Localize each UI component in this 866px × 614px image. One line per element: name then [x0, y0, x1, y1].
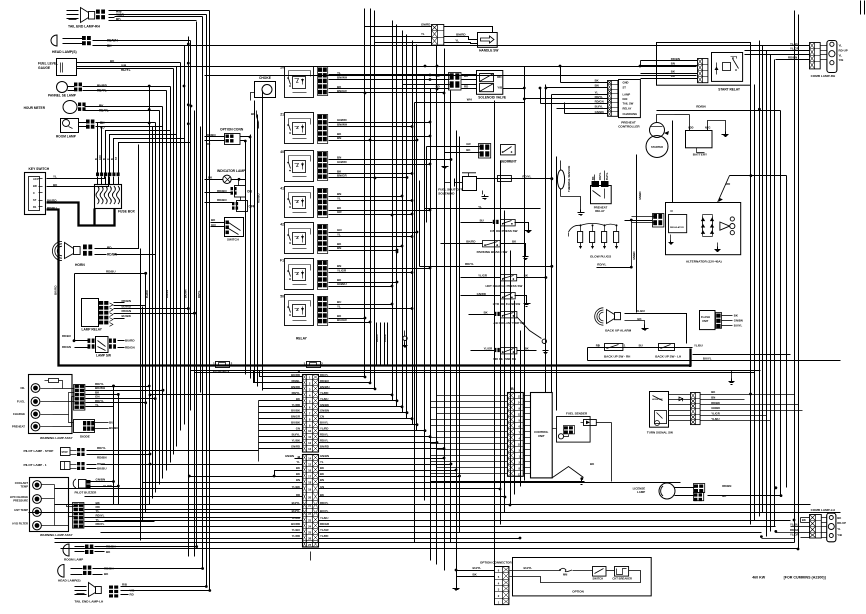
svg-text:Y/B: Y/B [837, 533, 842, 537]
svg-text:YL: YL [337, 233, 341, 237]
svg-text:KEY SWITCH: KEY SWITCH [29, 167, 50, 171]
svg-text:GN/RD: GN/RD [337, 118, 348, 122]
svg-text:GND: GND [623, 81, 629, 85]
svg-text:FU EL: FU EL [17, 400, 25, 404]
svg-text:50: 50 [280, 295, 284, 299]
svg-text:FUSE-BOX: FUSE-BOX [213, 370, 230, 374]
svg-text:MM: MM [563, 573, 567, 577]
svg-text:BK: BK [595, 79, 599, 83]
svg-text:LAMP: LAMP [623, 93, 631, 97]
svg-text:BK/WH: BK/WH [185, 289, 188, 298]
svg-text:11: 11 [308, 435, 311, 439]
svg-text:YL/GR: YL/GR [320, 528, 329, 532]
svg-text:RD/BN: RD/BN [122, 299, 132, 303]
svg-text:HYD CHARGE: HYD CHARGE [10, 495, 28, 499]
svg-text:FLASH: FLASH [701, 315, 710, 319]
svg-text:RELAY: RELAY [623, 107, 632, 111]
svg-text:23: 23 [308, 519, 312, 523]
svg-text:GN/RD: GN/RD [477, 292, 486, 296]
svg-text:RD/BN: RD/BN [217, 198, 227, 202]
svg-text:13: 13 [308, 447, 312, 451]
svg-text:BU/YL: BU/YL [473, 566, 482, 570]
svg-text:BR: BR [33, 184, 37, 188]
svg-text:RD/BN: RD/BN [206, 133, 216, 137]
svg-text:RD/BN: RD/BN [788, 55, 797, 59]
svg-text:15: 15 [518, 395, 521, 399]
svg-text:SOLENOID: SOLENOID [438, 192, 455, 196]
svg-text:BU: BU [337, 300, 341, 304]
svg-text:YL/RD: YL/RD [292, 534, 300, 538]
svg-text:RD/BL: RD/BL [291, 379, 300, 383]
svg-text:GN: GN [211, 223, 216, 227]
svg-text:BN: BN [671, 61, 675, 65]
svg-text:RD/GN: RD/GN [166, 290, 169, 298]
svg-text:BU/RD: BU/RD [146, 290, 149, 298]
svg-text:BU/RD: BU/RD [122, 305, 132, 309]
svg-text:ROOM LAMP: ROOM LAMP [56, 135, 77, 139]
svg-text:RD: RD [726, 182, 730, 186]
svg-text:17: 17 [308, 475, 312, 479]
svg-text:HOT CHARGE PRESS SW: HOT CHARGE PRESS SW [486, 284, 523, 288]
svg-text:RD/BN: RD/BN [696, 105, 706, 109]
svg-text:RD/BN: RD/BN [722, 484, 731, 488]
svg-text:CHARGING: CHARGING [623, 112, 638, 116]
svg-text:GN/BN: GN/BN [632, 252, 636, 260]
svg-text:B: B [111, 158, 114, 160]
svg-text:PILOT LAMP - STOP: PILOT LAMP - STOP [24, 449, 54, 453]
svg-text:YL: YL [96, 509, 100, 513]
svg-text:B: B [95, 158, 98, 160]
svg-text:RD/YL: RD/YL [198, 290, 201, 298]
svg-text:YL: YL [53, 175, 57, 179]
svg-text:RD: RD [671, 74, 675, 78]
svg-text:BK: BK [525, 347, 529, 351]
svg-text:RD/YL: RD/YL [522, 175, 531, 179]
svg-text:RD: RD [116, 18, 121, 22]
svg-text:BU/RD: BU/RD [125, 339, 135, 343]
svg-text:BK: BK [320, 472, 324, 476]
svg-text:RD/YL: RD/YL [292, 391, 301, 395]
svg-text:13: 13 [518, 472, 521, 476]
svg-text:2: 2 [231, 362, 233, 366]
svg-text:FUEL LEVEL: FUEL LEVEL [38, 62, 58, 66]
svg-text:BU/YL: BU/YL [524, 566, 533, 570]
svg-text:20: 20 [280, 66, 284, 70]
svg-text:HORN SW: HORN SW [652, 399, 664, 401]
svg-text:RD/WH: RD/WH [107, 39, 118, 43]
svg-text:42: 42 [280, 223, 284, 227]
svg-text:YL/GR: YL/GR [711, 412, 720, 416]
svg-text:BK: BK [296, 397, 300, 401]
svg-text:RD/YL: RD/YL [320, 433, 329, 437]
svg-text:UNIT: UNIT [702, 319, 709, 323]
svg-text:BK/BU: BK/BU [97, 467, 107, 471]
svg-text:YL: YL [337, 71, 341, 75]
svg-text:RD/BN: RD/BN [671, 57, 680, 61]
svg-text:RD/GN: RD/GN [122, 309, 132, 313]
svg-text:BATTERY: BATTERY [693, 153, 708, 157]
svg-text:HEAD LAMP(S): HEAD LAMP(S) [52, 50, 77, 54]
svg-text:26: 26 [308, 537, 312, 541]
svg-text:YL/GR: YL/GR [478, 274, 488, 278]
svg-text:MID OIL TEMP SW: MID OIL TEMP SW [493, 357, 516, 361]
svg-text:RD/GR: RD/GR [790, 528, 799, 532]
svg-text:BN: BN [337, 264, 341, 268]
svg-text:IGN: IGN [623, 97, 628, 101]
svg-text:HOUR METER: HOUR METER [24, 106, 46, 110]
svg-text:20: 20 [308, 496, 312, 500]
svg-text:F1: F1 [280, 259, 284, 263]
svg-text:YL/GR: YL/GR [790, 46, 800, 50]
svg-text:BN: BN [711, 396, 715, 400]
svg-text:GN/BN: GN/BN [734, 319, 743, 323]
svg-text:OPTION: OPTION [572, 590, 584, 594]
svg-text:HEAD LAMP(S): HEAD LAMP(S) [58, 579, 81, 583]
svg-text:COMB LAMP-LH: COMB LAMP-LH [811, 508, 836, 512]
svg-text:RD: RD [436, 85, 440, 89]
svg-text:BN/WH: BN/WH [337, 123, 347, 127]
svg-text:YL: YL [296, 460, 300, 464]
svg-text:19: 19 [308, 488, 312, 492]
svg-text:24: 24 [308, 525, 312, 529]
svg-text:RD/YL: RD/YL [96, 522, 105, 526]
svg-text:GN/RD: GN/RD [421, 23, 430, 27]
svg-text:YL/GR: YL/GR [484, 347, 493, 351]
svg-text:HYD OIL FLOW SW: HYD OIL FLOW SW [493, 302, 521, 306]
svg-text:REGULATOR: REGULATOR [670, 226, 684, 229]
svg-text:GN: GN [296, 427, 300, 431]
svg-text:RELAY: RELAY [595, 209, 605, 213]
svg-text:Y/B: Y/B [839, 58, 844, 62]
svg-text:YL: YL [320, 460, 324, 464]
svg-text:LAMP: LAMP [637, 490, 645, 494]
svg-text:BK: BK [734, 314, 738, 318]
svg-text:BK: BK [320, 493, 324, 497]
svg-text:BU/YL: BU/YL [320, 421, 329, 425]
svg-text:16: 16 [308, 469, 312, 473]
svg-text:RD-UP: RD-UP [839, 49, 848, 53]
svg-text:BU/RD: BU/RD [384, 334, 387, 342]
svg-text:RD/YL: RD/YL [97, 446, 106, 450]
svg-text:TAIL END LAMP-LH: TAIL END LAMP-LH [75, 600, 105, 604]
svg-text:RD: RD [130, 593, 134, 597]
svg-text:BK: BK [837, 516, 841, 520]
svg-text:RELAY: RELAY [296, 337, 308, 341]
svg-text:RD/YL: RD/YL [320, 373, 329, 377]
svg-text:YL/BU: YL/BU [790, 42, 799, 46]
svg-text:GN/BN: GN/BN [285, 454, 294, 458]
svg-text:OFF: OFF [249, 205, 255, 209]
svg-text:BU/YL: BU/YL [292, 433, 301, 437]
svg-text:CKT BREAKER: CKT BREAKER [612, 577, 632, 581]
svg-text:ON: ON [247, 190, 252, 194]
svg-text:12: 12 [308, 441, 312, 445]
svg-text:BU/YL: BU/YL [606, 172, 609, 180]
svg-text:ACC: ACC [33, 177, 39, 181]
svg-text:FUSE BOX: FUSE BOX [118, 210, 136, 214]
svg-text:HYD FILTER: HYD FILTER [12, 522, 28, 526]
svg-text:HST TEMP: HST TEMP [14, 508, 28, 512]
svg-text:COMB LAMP-RH: COMB LAMP-RH [811, 74, 836, 78]
svg-text:BK/RD: BK/RD [54, 285, 58, 295]
svg-text:GN/BN: GN/BN [96, 478, 106, 482]
svg-text:GN: GN [337, 228, 342, 232]
svg-text:SWITCH: SWITCH [227, 238, 239, 242]
svg-text:BN/GR: BN/GR [337, 89, 348, 93]
svg-text:BACK UP SW - LH: BACK UP SW - LH [655, 354, 681, 358]
svg-text:YL/RD: YL/RD [320, 391, 328, 395]
svg-text:CHARGE: CHARGE [13, 412, 25, 416]
svg-text:YL: YL [455, 39, 459, 43]
svg-text:GN/BN: GN/BN [595, 110, 604, 114]
svg-text:STOP: STOP [62, 452, 69, 454]
svg-text:ST: ST [115, 156, 118, 160]
svg-text:C/N OIL PRESS SW: C/N OIL PRESS SW [490, 229, 518, 233]
svg-text:PREHEAT: PREHEAT [12, 425, 25, 429]
svg-text:BU/BK: BU/BK [291, 409, 300, 413]
svg-text:YL/RD: YL/RD [320, 534, 328, 538]
svg-text:GLOW PLUGS: GLOW PLUGS [590, 255, 611, 259]
svg-text:GN/BK: GN/BK [711, 406, 720, 410]
svg-text:STARTER: STARTER [651, 145, 663, 149]
svg-text:C: C [33, 191, 35, 195]
svg-text:YL/BU: YL/BU [790, 523, 798, 527]
svg-text:C: C [107, 158, 110, 160]
svg-text:YL: YL [95, 403, 99, 407]
svg-text:YL/BK: YL/BK [292, 485, 300, 489]
svg-text:RD/BU: RD/BU [376, 334, 379, 342]
svg-text:RD: RD [596, 344, 600, 348]
svg-text:18: 18 [308, 481, 312, 485]
svg-text:RD: RD [464, 85, 468, 89]
svg-text:LAMP RELAY: LAMP RELAY [82, 328, 103, 332]
svg-text:RD/GN: RD/GN [62, 345, 71, 349]
svg-text:RD/YL: RD/YL [597, 263, 606, 267]
svg-text:BN/RD: BN/RD [320, 445, 329, 449]
svg-text:RD/YL: RD/YL [599, 172, 602, 180]
svg-text:ST: ST [623, 85, 627, 89]
svg-text:R/B: R/B [122, 583, 127, 587]
svg-text:BACK UP SW - RH: BACK UP SW - RH [604, 354, 630, 358]
svg-text:UNIT: UNIT [538, 434, 545, 438]
svg-text:BK/RD: BK/RD [466, 240, 475, 244]
svg-text:CN: CN [320, 415, 324, 419]
svg-text:2: 2 [321, 362, 323, 366]
svg-text:ROOM LAMP: ROOM LAMP [64, 558, 83, 562]
svg-text:B: B [511, 387, 514, 391]
svg-text:GAUGE: GAUGE [38, 66, 51, 70]
svg-text:GN: GN [320, 485, 324, 489]
svg-text:IC: IC [671, 209, 674, 213]
svg-text:25: 25 [308, 531, 312, 535]
svg-text:BN/RD: BN/RD [456, 32, 466, 36]
svg-text:ACC: ACC [99, 155, 102, 160]
svg-text:BK: BK [296, 466, 300, 470]
svg-text:BN/RD: BN/RD [97, 84, 108, 88]
svg-text:BN: BN [296, 478, 300, 482]
svg-text:PANNEL SE LAMP: PANNEL SE LAMP [48, 94, 77, 98]
svg-text:BN: BN [320, 478, 324, 482]
svg-text:Y/GR: Y/GR [116, 13, 124, 17]
svg-text:YL/BU: YL/BU [292, 528, 300, 532]
svg-text:WARNING LAMP ASSY: WARNING LAMP ASSY [40, 436, 73, 440]
svg-text:RD/GN: RD/GN [595, 100, 604, 104]
svg-text:YL: YL [839, 44, 843, 48]
svg-text:YL/RD: YL/RD [292, 403, 300, 407]
svg-text:GN/BN: GN/BN [320, 409, 329, 413]
svg-text:WARNING LAMP ASSY: WARNING LAMP ASSY [40, 533, 73, 537]
svg-text:YL/BK: YL/BK [292, 439, 300, 443]
svg-text:BK: BK [107, 44, 112, 48]
svg-text:GN/BN: GN/BN [638, 192, 642, 200]
svg-text:RD/YL: RD/YL [320, 439, 329, 443]
svg-text:41: 41 [280, 187, 284, 191]
svg-text:WH: WH [467, 98, 472, 102]
svg-text:BU/YL: BU/YL [734, 323, 743, 327]
svg-text:BK: BK [484, 310, 488, 314]
svg-text:10: 10 [518, 442, 521, 446]
svg-text:BK: BK [296, 472, 300, 476]
svg-text:1: 1 [304, 362, 306, 366]
svg-text:TAIL SW: TAIL SW [623, 102, 634, 106]
svg-text:BN/GR: BN/GR [291, 415, 300, 419]
svg-text:RD/GN: RD/GN [125, 346, 135, 350]
svg-text:BU/BK: BU/BK [122, 314, 132, 318]
svg-text:YL/BU: YL/BU [320, 397, 328, 401]
svg-text:CHOKE: CHOKE [259, 76, 272, 80]
svg-text:YL/RD: YL/RD [103, 484, 113, 488]
svg-text:RD/YL: RD/YL [595, 95, 604, 99]
svg-text:GN/BK: GN/BK [320, 403, 329, 407]
svg-text:PILOT LAMP - 1: PILOT LAMP - 1 [24, 463, 47, 467]
svg-text:YL: YL [421, 32, 425, 36]
svg-text:1: 1 [213, 362, 215, 366]
svg-text:BK: BK [711, 390, 715, 394]
svg-text:BN/GR: BN/GR [337, 174, 348, 178]
svg-text:SEDIMENT: SEDIMENT [500, 160, 517, 164]
svg-text:FUEL SENDER: FUEL SENDER [566, 412, 588, 416]
svg-text:CONTROLLER: CONTROLLER [618, 125, 640, 129]
svg-text:RD/YL: RD/YL [121, 68, 131, 72]
svg-text:BU/BN: BU/BN [109, 426, 119, 430]
svg-text:TEMP: TEMP [21, 484, 29, 488]
svg-text:[FOR CUMMINS (A2300)]: [FOR CUMMINS (A2300)] [784, 576, 826, 580]
svg-text:ST: ST [33, 198, 37, 202]
svg-text:OPTION CONNECTOR: OPTION CONNECTOR [480, 561, 512, 565]
svg-text:BN: BN [337, 246, 341, 250]
svg-text:BN: BN [337, 136, 341, 140]
svg-text:YL: YL [837, 527, 841, 531]
svg-text:BU: BU [109, 421, 113, 425]
svg-text:YL/BU: YL/BU [711, 417, 719, 421]
svg-text:BN/WH: BN/WH [337, 76, 347, 80]
svg-text:R1: R1 [33, 205, 37, 209]
svg-text:RD/BK: RD/BK [711, 401, 720, 405]
svg-text:SOLENOID VALVE: SOLENOID VALVE [478, 96, 506, 100]
svg-text:INDICATOR LAMP: INDICATOR LAMP [217, 169, 246, 173]
svg-text:BU: BU [639, 344, 643, 348]
svg-text:BU: BU [480, 218, 484, 222]
svg-text:BK: BK [320, 466, 324, 470]
svg-text:14: 14 [518, 401, 521, 405]
svg-text:RD/BU: RD/BU [257, 194, 261, 204]
svg-text:Y/B: Y/B [497, 85, 503, 89]
svg-text:GN/BU: GN/BU [337, 282, 347, 286]
svg-text:PRESSURE: PRESSURE [13, 498, 28, 502]
svg-text:YL: YL [337, 197, 341, 201]
svg-text:YL: YL [839, 54, 843, 58]
svg-text:THERMAL SENSOR: THERMAL SENSOR [567, 166, 571, 192]
svg-text:RD/BU: RD/BU [47, 206, 57, 210]
svg-text:10: 10 [308, 429, 312, 433]
svg-text:BU/YL: BU/YL [703, 357, 712, 361]
svg-text:BU/GR: BU/GR [337, 318, 348, 322]
svg-text:SWITCH: SWITCH [593, 577, 604, 581]
svg-text:TURN SIGNAL SW: TURN SIGNAL SW [647, 431, 673, 435]
svg-text:ADD: ADD [688, 126, 694, 129]
svg-text:YL/GR: YL/GR [337, 269, 347, 273]
svg-text:14: 14 [308, 457, 312, 461]
svg-text:B: B [103, 158, 106, 160]
svg-text:RD/YL: RD/YL [97, 89, 107, 93]
svg-text:BU/BK: BU/BK [291, 421, 300, 425]
svg-text:BN/RD: BN/RD [291, 385, 300, 389]
svg-text:27: 27 [308, 543, 312, 547]
svg-text:YL: YL [337, 305, 341, 309]
svg-text:BK/RD: BK/RD [47, 199, 57, 203]
svg-text:21: 21 [280, 113, 284, 117]
svg-text:BN: BN [337, 192, 341, 196]
svg-text:460 KW: 460 KW [752, 576, 766, 580]
svg-text:RD/BU: RD/BU [62, 334, 71, 338]
svg-text:12: 12 [518, 413, 521, 417]
svg-text:BK/RD: BK/RD [291, 373, 300, 377]
svg-text:TAIL END LAMP-RH: TAIL END LAMP-RH [68, 25, 100, 29]
svg-text:PILOT BUZZER: PILOT BUZZER [75, 491, 98, 495]
svg-text:15: 15 [308, 463, 312, 467]
svg-text:LAMP SW: LAMP SW [96, 354, 111, 358]
svg-text:YL: YL [478, 205, 482, 209]
svg-text:HORN: HORN [75, 263, 85, 267]
svg-text:40: 40 [280, 150, 284, 154]
svg-text:RD/BN: RD/BN [97, 456, 107, 460]
svg-text:YL/BU: YL/BU [320, 516, 328, 520]
svg-text:RD/YL: RD/YL [99, 109, 109, 113]
svg-text:RD/BN: RD/BN [217, 189, 227, 193]
svg-text:YL/GR: YL/GR [790, 533, 799, 537]
svg-text:OIL: OIL [20, 386, 25, 390]
svg-text:BU/YL: BU/YL [595, 105, 604, 109]
svg-text:GN/RD: GN/RD [337, 160, 348, 164]
svg-text:A/B COOLANT TEMP SW: A/B COOLANT TEMP SW [493, 321, 524, 325]
svg-text:RD/GR: RD/GR [320, 522, 329, 526]
svg-text:BK: BK [99, 104, 104, 108]
svg-text:PARKING BRAKE SW: PARKING BRAKE SW [477, 250, 508, 254]
svg-text:BN/WH: BN/WH [320, 385, 329, 389]
svg-text:HANDLE SW: HANDLE SW [479, 49, 498, 53]
svg-text:RD/YL: RD/YL [465, 262, 474, 266]
svg-text:YL/BU: YL/BU [694, 344, 703, 348]
svg-text:BK: BK [802, 518, 806, 522]
svg-text:BN: BN [595, 83, 599, 87]
svg-text:RD/BU: RD/BU [106, 269, 116, 273]
svg-text:RD: RD [296, 493, 300, 497]
svg-text:ALTERNATOR (12V-40A): ALTERNATOR (12V-40A) [686, 260, 722, 264]
svg-text:RD-UP: RD-UP [837, 521, 846, 525]
svg-text:DIODE: DIODE [80, 435, 90, 439]
svg-text:COOLANT: COOLANT [15, 481, 29, 485]
svg-text:OPTION CONN: OPTION CONN [220, 128, 244, 132]
